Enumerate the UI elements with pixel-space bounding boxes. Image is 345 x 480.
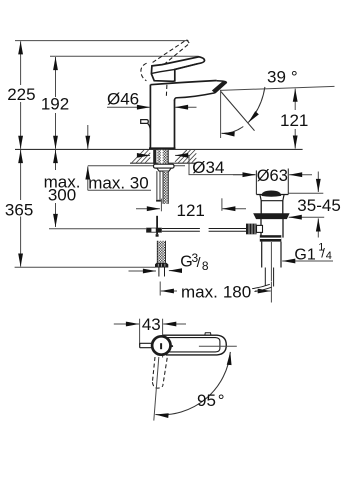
svg-text:8: 8 (202, 259, 209, 273)
svg-text:max. 30: max. 30 (88, 174, 148, 193)
horizontal reference line to 39 label (220, 86, 335, 90)
spout bottom edge (175, 93, 215, 101)
dimension 192 line (55, 57, 57, 97)
counter hatching right (175, 150, 196, 163)
handle tab pointing left (140, 343, 152, 347)
svg-text:39°: 39° (267, 68, 298, 87)
svg-text:365: 365 (5, 200, 33, 219)
95 arc (155, 352, 230, 415)
outlet extension line lower (221, 198, 223, 211)
faucet body column (150, 85, 174, 149)
threaded shank through counter (153, 150, 156, 164)
svg-text:Ø63: Ø63 (257, 167, 288, 185)
extension line (192 ref at lever lowered) (50, 55, 199, 57)
svg-text:Ø46: Ø46 (107, 90, 139, 109)
35-45 dimension (317, 172, 319, 193)
rod knob (knurled) (246, 224, 257, 235)
plain hose end cap (156, 200, 161, 202)
drain centre line (270, 242, 272, 281)
43 dimension arrows (114, 323, 139, 325)
pull-rod knob at rear (141, 120, 149, 124)
extension line top (225 ref at spout lever raised) (15, 40, 189, 42)
angle arc lower (ray to vertical) (222, 127, 244, 134)
centre tick (160, 343, 162, 349)
43 dimension extension lines (139, 319, 141, 345)
dimension max180 (159, 282, 161, 296)
G3/8 leader arrows (129, 270, 157, 272)
dimension 121 lower: right arrow (222, 208, 246, 210)
svg-text:/: / (321, 246, 325, 261)
spout body top view (163, 335, 226, 355)
body below flange (260, 219, 262, 238)
lever pivot dot (171, 345, 173, 347)
flange (254, 214, 289, 219)
dimension max300 line (55, 150, 57, 170)
lower hose braided (157, 241, 165, 263)
basin surface line at drain (288, 192, 323, 194)
svg-text:192: 192 (41, 95, 69, 114)
svg-text:43: 43 (142, 315, 161, 334)
dimension 121 lower: left arrow (136, 208, 160, 210)
spout axis tick line (199, 345, 237, 347)
svg-text:95°: 95° (197, 391, 225, 410)
horizontal rod to drain (162, 228, 200, 230)
G1 1/4 leader (282, 260, 333, 262)
pipe break lines (252, 284, 270, 288)
svg-text:G1: G1 (294, 246, 315, 263)
35-45 lower reference with arrow (289, 216, 325, 218)
counter bottom line (130, 162, 196, 164)
dimension 121 upper (294, 89, 296, 110)
angle arc upper (label line to ray) (248, 87, 265, 123)
lever top view inner outline (167, 338, 220, 352)
extension line 365 bottom (hose end) (15, 266, 156, 268)
svg-text:35-45: 35-45 (297, 196, 340, 215)
counter top line (15, 148, 303, 150)
faucet centre extension line (160, 199, 162, 212)
Ø46 right arrow (175, 106, 197, 108)
svg-text:/: / (197, 254, 201, 270)
hose nut G3/8 (155, 263, 168, 268)
Ø63 arrows (233, 174, 256, 176)
svg-text:225: 225 (7, 85, 35, 104)
dimension 365 line (20, 150, 22, 200)
aerator band (212, 81, 226, 93)
pull rod vertical (156, 216, 158, 234)
dimension 225 line (20, 41, 22, 85)
svg-text:4: 4 (326, 250, 332, 262)
svg-text:121: 121 (280, 111, 308, 130)
cup rim (256, 194, 288, 196)
drain cup walls / Ø63 extension lines (255, 170, 257, 194)
svg-text:121: 121 (177, 201, 205, 220)
lever handle outline (151, 57, 204, 82)
extension line counter bottom (max30) (88, 165, 185, 167)
tailpipe (264, 268, 266, 286)
hose nipple (158, 268, 160, 277)
cone washer (157, 168, 171, 171)
spout top edge (150, 81, 216, 85)
faucet base plate (149, 147, 176, 149)
upper body walls (260, 201, 262, 214)
clamp nut (260, 235, 282, 241)
water stream ray 39deg (221, 92, 255, 131)
Ø34 hole arrows (137, 154, 150, 156)
svg-text:max.180: max.180 (181, 282, 251, 301)
supply hose braided (163, 171, 168, 204)
svg-text:300: 300 (48, 186, 76, 205)
dimension max30 upper arrow (87, 125, 89, 149)
swivel ray (154, 357, 159, 421)
counter hatching left (132, 150, 151, 163)
dashed rotated handle (152, 357, 167, 388)
threaded tube G1 1/4 (261, 242, 263, 268)
extension line max300 bottom (49, 228, 146, 230)
swivel circle (152, 336, 170, 354)
supply hose plain (156, 171, 158, 200)
rod coupling (146, 228, 162, 233)
Ø46 leader text underline + arrow (107, 106, 150, 108)
spout tip face (215, 81, 227, 93)
dimension max30 lower arrow + label bracket (87, 166, 89, 190)
dashed raised lever (141, 40, 190, 98)
svg-text:Ø34: Ø34 (192, 158, 224, 177)
outlet vertical reference line (220, 90, 222, 138)
knob collar (257, 225, 263, 232)
spout top step (205, 333, 211, 335)
Ø34 label bracket (189, 155, 256, 174)
pop-up plug dome (261, 191, 281, 197)
mounting nut (154, 164, 175, 168)
lever underside inner line (152, 64, 198, 74)
neck taper (260, 195, 284, 201)
